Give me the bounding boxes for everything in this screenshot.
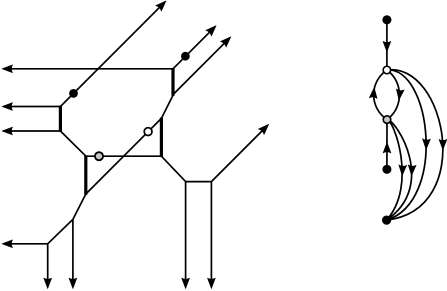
wire: ray northeast from A1 through marked point (60, 2, 164, 106)
arrowhead northeast F2 ray (258, 121, 271, 134)
arrowhead west D2 ray (2, 65, 13, 73)
arrowhead south C2 ray (44, 278, 52, 289)
wire: outer curve 1 N2-N5 (387, 70, 427, 220)
node N2 white (383, 66, 391, 74)
arrowhead northeast A1 ray (156, 0, 169, 11)
wire: ray northeast from F2 (211, 126, 267, 182)
wire: lens left curve N3-N2 (374, 70, 387, 120)
wire: ray south from C2 (47, 244, 49, 286)
wire: ray west from A2 (5, 130, 60, 132)
wire: lens right curve N2-N3 (387, 70, 400, 120)
arrowhead on inner curve 2 pointing down (408, 165, 417, 176)
wire: ray south from C1 (72, 219, 74, 286)
wire: outer curve 2 N2-N5 (387, 70, 443, 220)
wire: edge B1-E1 horizontal through gray point (86, 155, 161, 157)
arrowhead on inner curve 1 pointing down (398, 165, 407, 176)
node: gray point on B1-E1 edge (95, 152, 103, 160)
arrowhead on outer curve 1 pointing down (422, 139, 430, 150)
wire: ray west from A1 (5, 106, 60, 108)
wire: ray south from F1 (185, 182, 187, 287)
arrowhead south F2 ray (207, 278, 215, 289)
arrowhead northeast D2 ray (206, 23, 219, 36)
arrowhead on lens right pointing down (395, 89, 404, 101)
arrowhead west A2 ray (2, 127, 13, 135)
wire: edge E1-F1 (161, 156, 185, 181)
arrowhead on lens left pointing up (369, 87, 378, 98)
node N5 black (382, 216, 391, 225)
node: black point on A1 northeast ray (69, 89, 78, 98)
wire: ray northeast from D2 through marked point (173, 27, 215, 69)
arrowhead south C1 ray (69, 278, 77, 289)
wire: ray west from C2 (5, 243, 48, 245)
arrowhead on N4-N3 pointing up (383, 142, 391, 153)
wire: thick vertical edge APX-E1 (160, 118, 163, 157)
wire: ray west from D2 (5, 68, 173, 70)
node: white point on B2-APX edge (144, 128, 152, 136)
arrowhead west A1 ray (2, 103, 13, 111)
wire: edge B2-C1 (73, 194, 86, 219)
wire: edge A2-B1 (60, 131, 86, 156)
arrowhead on outer curve 2 pointing down (439, 139, 447, 150)
wire: edge N3-N4 (386, 120, 388, 170)
wire: edge F1-F2 horizontal (186, 181, 212, 183)
wire: ray northeast from D1 (173, 38, 229, 94)
wire: edge APX-D1 (161, 95, 173, 118)
wire: inner curve 2 N3-N5 (387, 120, 412, 221)
node N3 gray (383, 116, 391, 124)
wire: inner curve 1 N3-N5 (387, 120, 403, 221)
node: black point on D2 northeast ray (181, 52, 190, 61)
wire: edge B2-APX diagonal through white point (86, 118, 162, 194)
wire: edge N1-N2 (386, 20, 388, 70)
arrowhead on N1-N2 pointing down (383, 41, 391, 52)
node N1 black (382, 15, 391, 24)
wire: thick vertical edge B1-B2 (84, 155, 87, 194)
arrowhead south F1 ray (182, 278, 190, 289)
arrowhead west C2 ray (2, 240, 13, 248)
node N4 black (382, 165, 391, 174)
wire: ray south from F2 (210, 182, 212, 287)
wire: edge C1-C2 (48, 219, 73, 243)
wire: thick vertical edge A1-A2 (59, 106, 62, 132)
arrowhead northeast D1 ray (220, 34, 233, 47)
wire: thick vertical edge D1-D2 (171, 68, 174, 96)
